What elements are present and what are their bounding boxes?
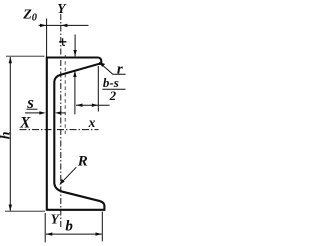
svg-text:b: b bbox=[65, 219, 73, 235]
leader R: line bbox=[60, 167, 76, 184]
dimension b: extension line right bbox=[101, 212, 103, 242]
leader r: arrow at flange tip bbox=[99, 62, 105, 67]
dimension h: arrow down bbox=[9, 205, 12, 212]
svg-text:h: h bbox=[0, 131, 13, 139]
svg-text:Y: Y bbox=[57, 1, 67, 16]
dimension b: extension line left bbox=[44, 213, 46, 242]
dimension s: right tail bbox=[60, 112, 66, 114]
dimension (b-s)/2: arrow right bbox=[92, 104, 98, 107]
svg-text:x: x bbox=[88, 115, 96, 130]
flange tip extension line bbox=[97, 66, 99, 112]
dimension Z0: arrow right (outside, pointing left) bbox=[61, 24, 67, 27]
channel section outline bbox=[47, 57, 105, 209]
dimension s: left arrow line bbox=[25, 112, 41, 114]
dimension Z0: line with tails bbox=[39, 24, 89, 26]
dimension b: line bbox=[46, 233, 102, 235]
svg-text:Y: Y bbox=[51, 212, 61, 227]
svg-text:X: X bbox=[19, 115, 31, 132]
dimension h: line bbox=[9, 57, 11, 211]
dimension t: arrow down at flange top bbox=[73, 50, 76, 56]
dimension (b-s)/2: arrow left bbox=[76, 104, 82, 107]
dimension h: extension line top bbox=[6, 55, 45, 57]
dimension Z0: extension line (web face) bbox=[46, 19, 48, 58]
svg-text:R: R bbox=[77, 153, 88, 169]
dimension h: arrow up bbox=[9, 57, 12, 64]
dimension t: lower line bbox=[74, 71, 76, 115]
dimension s: arrow pointing right at web outer face bbox=[39, 111, 45, 114]
leader R: arrow at fillet bbox=[59, 179, 64, 185]
leader r: line bbox=[99, 62, 125, 74]
dimension b: arrow left bbox=[46, 232, 52, 235]
dimension h: extension line bottom bbox=[5, 210, 45, 212]
dimension b: arrow right bbox=[96, 232, 102, 235]
dimension Z0: arrow left (outside, pointing right) bbox=[40, 24, 46, 27]
axis X (horizontal dash-dot centerline) bbox=[20, 129, 99, 131]
axis Y (vertical dash-dot centerline) bbox=[60, 14, 62, 229]
dimension s: arrow pointing left at web inner face bbox=[55, 111, 61, 114]
label t bbox=[59, 38, 66, 45]
flange slope reference dashed line bbox=[64, 55, 66, 135]
dimension t: arrow up at flange underside bbox=[73, 71, 76, 77]
dimension t: upper line bbox=[74, 35, 76, 57]
svg-text:Z: Z bbox=[22, 7, 32, 22]
svg-text:0: 0 bbox=[32, 13, 38, 24]
dimension (b-s)/2: line bbox=[76, 104, 110, 106]
svg-text:2: 2 bbox=[109, 88, 117, 103]
